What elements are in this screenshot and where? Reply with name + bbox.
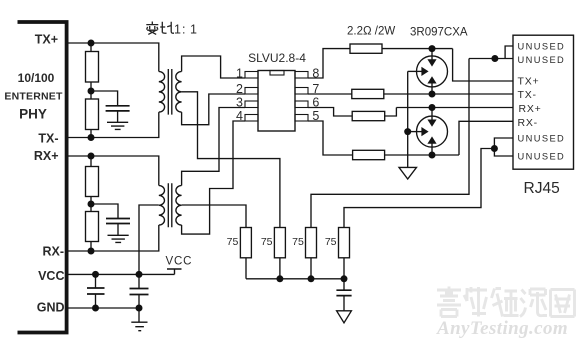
U1 pin 4 <box>245 115 258 122</box>
U1 pin 3 <box>245 101 258 108</box>
watermark 嘉峪检测网 (light gray glyph strokes) <box>437 287 575 317</box>
wire TX- to RJ45 <box>384 93 513 95</box>
svg-text:UNUSED: UNUSED <box>518 151 566 161</box>
svg-text:2: 2 <box>236 82 243 96</box>
svg-text:RJ45: RJ45 <box>524 180 560 197</box>
svg-text:RX-: RX- <box>42 245 64 259</box>
resistor RA1 2.2ohm <box>350 44 382 53</box>
node junction TX- <box>88 134 95 141</box>
wire GND rail <box>68 307 139 309</box>
svg-text:TX-: TX- <box>38 132 58 146</box>
transformer T2 secondary winding (right, humps left) <box>176 186 182 226</box>
PHY box outline (thick) <box>18 22 67 333</box>
resistor RB2 75ohm <box>274 228 285 258</box>
capacitor C2 <box>106 219 130 224</box>
node junction TX+ <box>88 40 95 47</box>
gas arrester G1 (3R097CXA) circle <box>417 56 448 87</box>
wire C1 to ground <box>117 111 119 122</box>
svg-text:VCC: VCC <box>166 256 193 268</box>
node junction TVS2 left-ground <box>404 128 411 135</box>
U1 body <box>258 71 295 132</box>
wire T2 secondary bottom to SLVU pin4 <box>182 121 245 234</box>
node junction RX- <box>88 248 95 255</box>
wire unused-bottom net to RB4 <box>344 149 494 228</box>
node junction TVS1 top <box>429 45 436 52</box>
node junction unused-top <box>491 55 498 62</box>
gas arrester G2 (3R097CXA) circle <box>417 116 448 147</box>
svg-text:AnyTesting.com: AnyTesting.com <box>436 318 568 339</box>
wire R4 stubs <box>90 204 92 251</box>
ground (signal, below C1) <box>107 122 128 129</box>
svg-text:75: 75 <box>325 236 337 248</box>
connector RJ45 box <box>513 35 574 169</box>
wire RX+ to RJ45 <box>396 107 513 109</box>
svg-text:ENTERNET: ENTERNET <box>4 91 63 103</box>
svg-text:RX+: RX+ <box>519 103 542 115</box>
transformer T1 primary winding (left, humps right) <box>159 72 165 113</box>
wire TVS2 bottom stub <box>431 144 433 156</box>
svg-text:RX-: RX- <box>518 117 538 129</box>
node junction TVS1 bottom <box>429 91 436 98</box>
node junction RX+ <box>88 153 95 160</box>
wire UNUSED pair bottom bracket <box>494 138 513 156</box>
node junction rail RB3 <box>308 275 315 282</box>
wire TX- from PHY to T1 primary bottom <box>68 112 159 137</box>
U1 pin 1 <box>245 72 258 79</box>
resistor RB1 75ohm <box>240 228 251 258</box>
node junction GND-C3 <box>92 305 99 312</box>
capacitor C3 (VCC decoupling) <box>95 274 97 308</box>
wire SLVU pin6 to RA3 <box>308 108 352 117</box>
node junction VCC-C4 <box>136 271 143 278</box>
wire VCC rail <box>68 273 175 275</box>
diode G1 top (down) <box>427 59 436 66</box>
resistor RA2 2.2ohm <box>352 89 384 98</box>
transformer T1 secondary winding (right, humps left) <box>176 72 182 113</box>
svg-text:1: 1 <box>236 67 243 81</box>
node junction rail RB2 <box>276 275 283 282</box>
svg-text:2.2Ω /2W: 2.2Ω /2W <box>347 25 395 37</box>
wire TVS1 top stub <box>431 49 433 60</box>
svg-text:VCC: VCC <box>38 269 64 283</box>
diode G2 left (right) <box>421 127 428 136</box>
wire TX+ step down to RJ45 <box>453 49 513 81</box>
svg-text:3R097CXA: 3R097CXA <box>410 26 468 38</box>
svg-text:UNUSED: UNUSED <box>518 41 566 51</box>
svg-text:TX-: TX- <box>518 89 537 101</box>
wire R3 stubs <box>90 156 92 204</box>
U1 notch <box>270 71 284 76</box>
wire rail to C5 <box>343 279 345 290</box>
wire GND to ground symbol <box>138 308 140 322</box>
transformer T1 core <box>168 69 172 115</box>
wire RX- from PHY to T2 primary bottom <box>68 225 159 251</box>
wire TVS1 bottom stub <box>431 83 433 94</box>
wire unused-top net to RB3 <box>311 59 469 228</box>
wire TVS2 top stub <box>431 108 433 120</box>
wire RX+ from PHY to T2 primary top <box>68 156 159 186</box>
wire C2 to ground <box>117 224 119 236</box>
transformer T2 primary winding (left, humps right) <box>159 186 165 226</box>
svg-text:UNUSED: UNUSED <box>518 55 566 65</box>
wire TX mid-node to C1 <box>91 91 118 106</box>
wire common rail <box>246 278 344 280</box>
label turns-ratio glyph 比 <box>160 22 174 33</box>
transformer T2 core <box>168 183 172 227</box>
svg-text:SLVU2.8-4: SLVU2.8-4 <box>248 51 306 65</box>
wire T1 secondary center-tap to 75ohm RB2 <box>182 92 280 228</box>
wire SLVU pin7 to RA2 <box>308 93 352 95</box>
wire TX+ from PHY to T1 primary top <box>68 43 159 72</box>
wire RA4 to TVS2 bottom node <box>385 154 459 156</box>
svg-text:75: 75 <box>227 236 239 248</box>
wire T1 secondary bottom to SLVU pin2 <box>182 94 245 125</box>
resistor RB4 75ohm <box>339 228 350 258</box>
svg-text:10/100: 10/100 <box>18 71 55 85</box>
wire TVS1 left stub to ground column <box>408 70 422 72</box>
U1 pin 2 <box>245 88 258 95</box>
svg-text:1: 1 <box>190 23 197 37</box>
node junction TVS2 bottom <box>429 152 436 159</box>
wire T1 secondary top to SLVU pin1 <box>182 56 245 78</box>
svg-text:3: 3 <box>236 96 243 110</box>
U1 pin 5 <box>295 115 308 122</box>
diode G2 top (down) <box>427 120 436 127</box>
IC U1 SLVU2.8-4 TVS diode array <box>245 71 308 132</box>
resistor R2 (TX- termination) <box>86 99 99 130</box>
capacitor C4 (VCC decoupling) <box>138 274 140 308</box>
wire RX- step up to RJ45 <box>459 121 513 155</box>
svg-text:TX+: TX+ <box>518 76 540 88</box>
resistor R4 (RX- termination) <box>86 212 99 242</box>
node junction unused-bottom <box>491 145 498 152</box>
svg-text:4: 4 <box>236 109 243 123</box>
node junction TX mid <box>88 88 95 95</box>
wire RA3 step up <box>385 108 397 117</box>
wire C5 to chassis ground <box>343 296 345 311</box>
wire R2 stubs <box>90 91 92 138</box>
wire ground column <box>407 71 409 167</box>
wire SLVU pin5 to RA4 <box>308 121 353 155</box>
wire R1 stubs <box>90 43 92 91</box>
ground (signal, below C4) <box>131 322 147 331</box>
wire T2 secondary center-tap to 75ohm RB1 <box>182 205 246 228</box>
svg-text:PHY: PHY <box>19 107 47 122</box>
node junction TVS2 top <box>429 104 436 111</box>
node junction RX mid <box>88 201 95 208</box>
wire 75ohm commons to rail <box>246 258 344 279</box>
U1 pin 8 <box>295 72 308 79</box>
U1 pin 7 <box>295 88 308 95</box>
diode G2 bottom (up) <box>427 136 436 143</box>
node junction GND-C4 <box>136 305 143 312</box>
resistor R3 (RX+ termination) <box>86 167 99 197</box>
wire TVS2 left stub to ground column <box>408 131 422 133</box>
wire SLVU pin8 to RA1 <box>308 49 350 78</box>
U1 pin 6 <box>295 101 308 108</box>
ground (chassis, open triangle) <box>337 311 352 323</box>
svg-text:RX+: RX+ <box>34 149 59 163</box>
ground (chassis, open triangle) <box>399 167 417 179</box>
svg-text:GND: GND <box>37 301 65 315</box>
diode G1 left (right) <box>421 67 428 76</box>
wire UNUSED pair top bracket <box>469 46 513 59</box>
resistor R1 (TX+ termination) <box>86 52 99 83</box>
wire T2 primary center-tap to VCC <box>139 205 159 274</box>
diode G1 bottom (up) <box>427 76 436 83</box>
svg-text:UNUSED: UNUSED <box>518 133 566 143</box>
label turns-ratio glyph 变 <box>146 22 158 35</box>
svg-text:1: 1 <box>174 23 181 37</box>
svg-text::: : <box>182 23 185 37</box>
wire T2 secondary top to SLVU pin3 <box>182 108 245 186</box>
node junction rail RB4-C5 <box>341 275 348 282</box>
capacitor C1 <box>106 106 130 111</box>
LEFT-LABELS <box>34 33 65 315</box>
capacitor C5 <box>336 290 351 295</box>
node junction VCC-C3 <box>92 271 99 278</box>
power VCC symbol <box>167 269 182 274</box>
resistor RA4 2.2ohm <box>353 150 385 159</box>
svg-text:75: 75 <box>292 236 304 248</box>
svg-text:TX+: TX+ <box>35 33 58 47</box>
ground (signal, below C2) <box>108 235 129 242</box>
wire RA1 to TVS1 top node <box>382 48 453 50</box>
resistor RB3 75ohm <box>306 228 317 258</box>
wire RX mid-node to C2 <box>91 204 118 219</box>
svg-text:75: 75 <box>261 236 273 248</box>
resistor RA3 2.2ohm <box>352 111 385 120</box>
